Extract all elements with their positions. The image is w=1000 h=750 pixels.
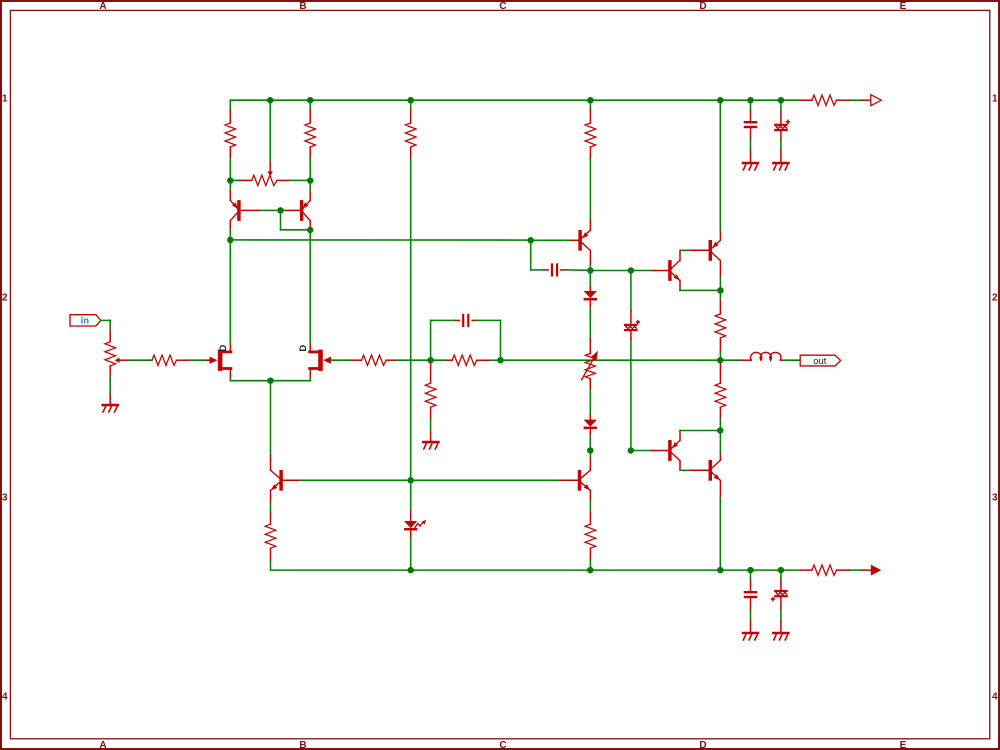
wire L1 to out flag xyxy=(785,359,801,361)
wire wiper drop from rail xyxy=(269,100,271,162)
ground below C8 xyxy=(780,621,782,632)
ground below C7 xyxy=(750,621,752,632)
node lower collector xyxy=(717,427,724,434)
svg-text:3: 3 xyxy=(2,493,8,504)
svg-text:4: 4 xyxy=(2,692,8,703)
svg-text:D: D xyxy=(218,345,229,352)
bottom rail arrow terminal xyxy=(862,569,872,571)
transistor Q6 lower driver PNP xyxy=(651,450,668,452)
node rail dots top xyxy=(267,97,274,104)
transistor Q5 upper output PNP xyxy=(709,240,713,261)
transistor Q1 mirror left PNP xyxy=(229,183,231,191)
svg-text:C: C xyxy=(499,1,506,12)
wire Q6 collector to Q7 base xyxy=(680,469,691,471)
svg-text:C: C xyxy=(499,740,506,750)
wire J1 drain up xyxy=(229,240,231,343)
wire R2 to emitter node xyxy=(229,158,231,181)
wire trimmer to D2 xyxy=(589,390,591,415)
node Q2 collector xyxy=(307,227,314,234)
svg-text:D: D xyxy=(699,1,706,12)
wire C5 top lead xyxy=(750,100,752,110)
wire R3 to emitter node xyxy=(309,158,311,181)
resistor R2 left load xyxy=(229,100,231,110)
capacitor C3 Miller xyxy=(544,269,549,271)
capacitor C5 xyxy=(750,111,752,121)
resistor R4 to node A xyxy=(351,359,362,361)
node C4 top xyxy=(628,267,635,274)
resistor R13 top rail xyxy=(800,99,812,101)
resistor R12 xyxy=(589,512,591,524)
wire C5 to ground xyxy=(750,139,752,150)
diode D2 xyxy=(589,415,591,420)
wire LED to bottom rail xyxy=(410,538,412,570)
wire Q8 emitter xyxy=(270,503,272,512)
transistor Q9 lower current source NPN xyxy=(578,470,582,491)
svg-text:4: 4 xyxy=(992,692,998,703)
resistor R8 between nodes xyxy=(431,359,446,361)
wire node to Q6 base xyxy=(631,450,652,452)
wire C4 column lower xyxy=(630,339,632,450)
wire Q4 emitter to node xyxy=(680,289,720,291)
node R12 rail xyxy=(587,567,594,574)
resistor R11 tail emitter xyxy=(270,512,272,524)
resistor R3 right load xyxy=(309,100,311,110)
wire bias to LED xyxy=(410,480,412,511)
wire R11 to bottom rail xyxy=(270,560,272,570)
wire node to Q4 base xyxy=(631,270,652,272)
wire Q4 collector to Q5 base xyxy=(680,249,691,251)
wire R4 to node A xyxy=(397,359,431,361)
node mirror right emitter xyxy=(307,177,314,184)
wire C4 column upper xyxy=(630,271,632,312)
resistor R5 shunt to ground xyxy=(430,363,432,383)
wire in flag to pot xyxy=(101,319,110,321)
top rail arrow terminal xyxy=(862,99,872,101)
node bias base line xyxy=(407,477,414,484)
J1 gate lead xyxy=(206,359,211,361)
LED D3 xyxy=(410,511,412,521)
svg-text:2: 2 xyxy=(2,293,8,304)
wire tail from JFET sources xyxy=(270,381,272,456)
svg-text:E: E xyxy=(900,740,907,750)
node mirror output xyxy=(227,237,234,244)
svg-text:A: A xyxy=(99,740,106,750)
wire Q3 collector to C4 node xyxy=(590,270,631,272)
wire Q7 collector to node xyxy=(719,431,721,453)
wire Q9 emitter xyxy=(589,500,591,512)
svg-text:D: D xyxy=(298,345,309,352)
node C4 bottom xyxy=(628,447,635,454)
wire R1 to J1 gate xyxy=(190,359,208,361)
node Q3 collector xyxy=(587,267,594,274)
wire C7 to ground xyxy=(750,610,752,621)
wire Q6 emitter to node xyxy=(680,430,720,432)
ground below R5 xyxy=(430,433,432,441)
polarized capacitor C6 xyxy=(780,111,782,124)
JFET J1 left xyxy=(218,350,223,371)
capacitor C4 polarized xyxy=(630,311,632,324)
port flag in xyxy=(70,315,101,326)
node D2 bottom xyxy=(587,447,594,454)
node LED bottom rail xyxy=(407,567,414,574)
wire C8 to ground xyxy=(780,610,782,621)
wire Q2 base loop xyxy=(240,209,259,211)
wire C8 lead xyxy=(780,570,782,580)
node source tail xyxy=(267,377,274,384)
node VAS base tee xyxy=(527,237,534,244)
resistor R7 VAS emitter xyxy=(589,100,591,109)
wire J2 gate to R4 xyxy=(331,359,351,361)
wire VAS base to Miller cap xyxy=(530,240,532,270)
ground below P1 xyxy=(109,395,111,404)
resistor R10 xyxy=(719,363,721,383)
node upper emitter xyxy=(717,287,724,294)
node Q7 emitter rail xyxy=(717,567,724,574)
polarized capacitor C8 xyxy=(780,580,782,590)
port flag out xyxy=(800,355,840,366)
ground below C6 xyxy=(780,151,782,162)
wire J1 source corner xyxy=(229,378,231,380)
wire J2 source corner xyxy=(309,378,311,380)
resistor R1 series input xyxy=(152,355,177,365)
capacitor C7 xyxy=(750,581,752,591)
wire Q5 emitter to top rail xyxy=(719,100,721,230)
wire output line node B to inductor xyxy=(501,359,721,361)
capacitor C2 bridge xyxy=(430,320,432,360)
wire D2 to lower node xyxy=(589,437,591,451)
wire mirror output to VAS base xyxy=(230,239,530,241)
JFET J2 right xyxy=(318,350,323,371)
svg-text:B: B xyxy=(299,740,306,750)
wire bottom supply rail xyxy=(271,569,801,571)
transistor Q4 upper driver NPN xyxy=(651,270,668,272)
wire C6 top lead xyxy=(780,100,782,111)
transistor Q2 mirror right PNP xyxy=(309,183,311,191)
svg-text:2: 2 xyxy=(992,293,998,304)
svg-text:1: 1 xyxy=(992,94,998,105)
potentiometer P2 offset trim xyxy=(269,162,271,172)
node B xyxy=(497,357,504,364)
wire C7 lead xyxy=(750,570,752,581)
node mirror left emitter xyxy=(227,177,234,184)
node output xyxy=(717,357,724,364)
wire Q1 collector to mirror out xyxy=(229,230,231,240)
wire R12 to bottom rail xyxy=(589,560,591,570)
transistor Q7 lower output NPN xyxy=(709,460,713,481)
wire J2 drain up xyxy=(309,230,311,343)
wire Q9 collector xyxy=(589,451,591,458)
resistor R6 bias chain xyxy=(410,100,412,109)
resistor R9 xyxy=(719,290,721,300)
wire top supply rail xyxy=(230,99,800,101)
wire R5 to ground xyxy=(430,419,432,433)
wire R7 to Q3 emitter xyxy=(589,158,591,221)
Q6 collector corner xyxy=(679,461,681,471)
svg-text:out: out xyxy=(813,356,827,367)
diode D1 xyxy=(589,271,591,287)
svg-text:3: 3 xyxy=(992,493,998,504)
svg-text:E: E xyxy=(900,1,907,12)
wire C6 to ground xyxy=(780,140,782,151)
wire Q7 emitter to bottom rail xyxy=(719,498,721,571)
wire bias chain vertical xyxy=(410,158,412,480)
J2 gate lead xyxy=(323,357,331,364)
svg-text:1: 1 xyxy=(2,94,8,105)
svg-text:D: D xyxy=(699,740,706,750)
transistor Q3 VAS PNP xyxy=(589,221,591,230)
wire pot to ground xyxy=(109,377,111,395)
inductor L1 xyxy=(720,359,741,361)
svg-text:A: A xyxy=(99,1,106,12)
svg-text:in: in xyxy=(81,316,90,327)
Q4 emitter corner xyxy=(679,281,681,291)
wire pot wiper to R1 xyxy=(119,359,129,361)
transistor Q8 tail current source NPN xyxy=(270,456,272,471)
wire Q5 collector to node xyxy=(719,277,721,290)
wire D1 to trimmer xyxy=(589,309,591,339)
ground below C5 xyxy=(750,151,752,162)
trimmer VR1 bias xyxy=(589,339,591,354)
wire C3 to collector node xyxy=(566,269,590,271)
node rail dots bottom xyxy=(747,567,754,574)
wire Q8 base line xyxy=(283,479,301,481)
node A xyxy=(427,357,434,364)
resistor R14 bottom rail xyxy=(800,569,812,571)
potentiometer P1 input level xyxy=(109,331,111,342)
svg-text:B: B xyxy=(299,1,306,12)
